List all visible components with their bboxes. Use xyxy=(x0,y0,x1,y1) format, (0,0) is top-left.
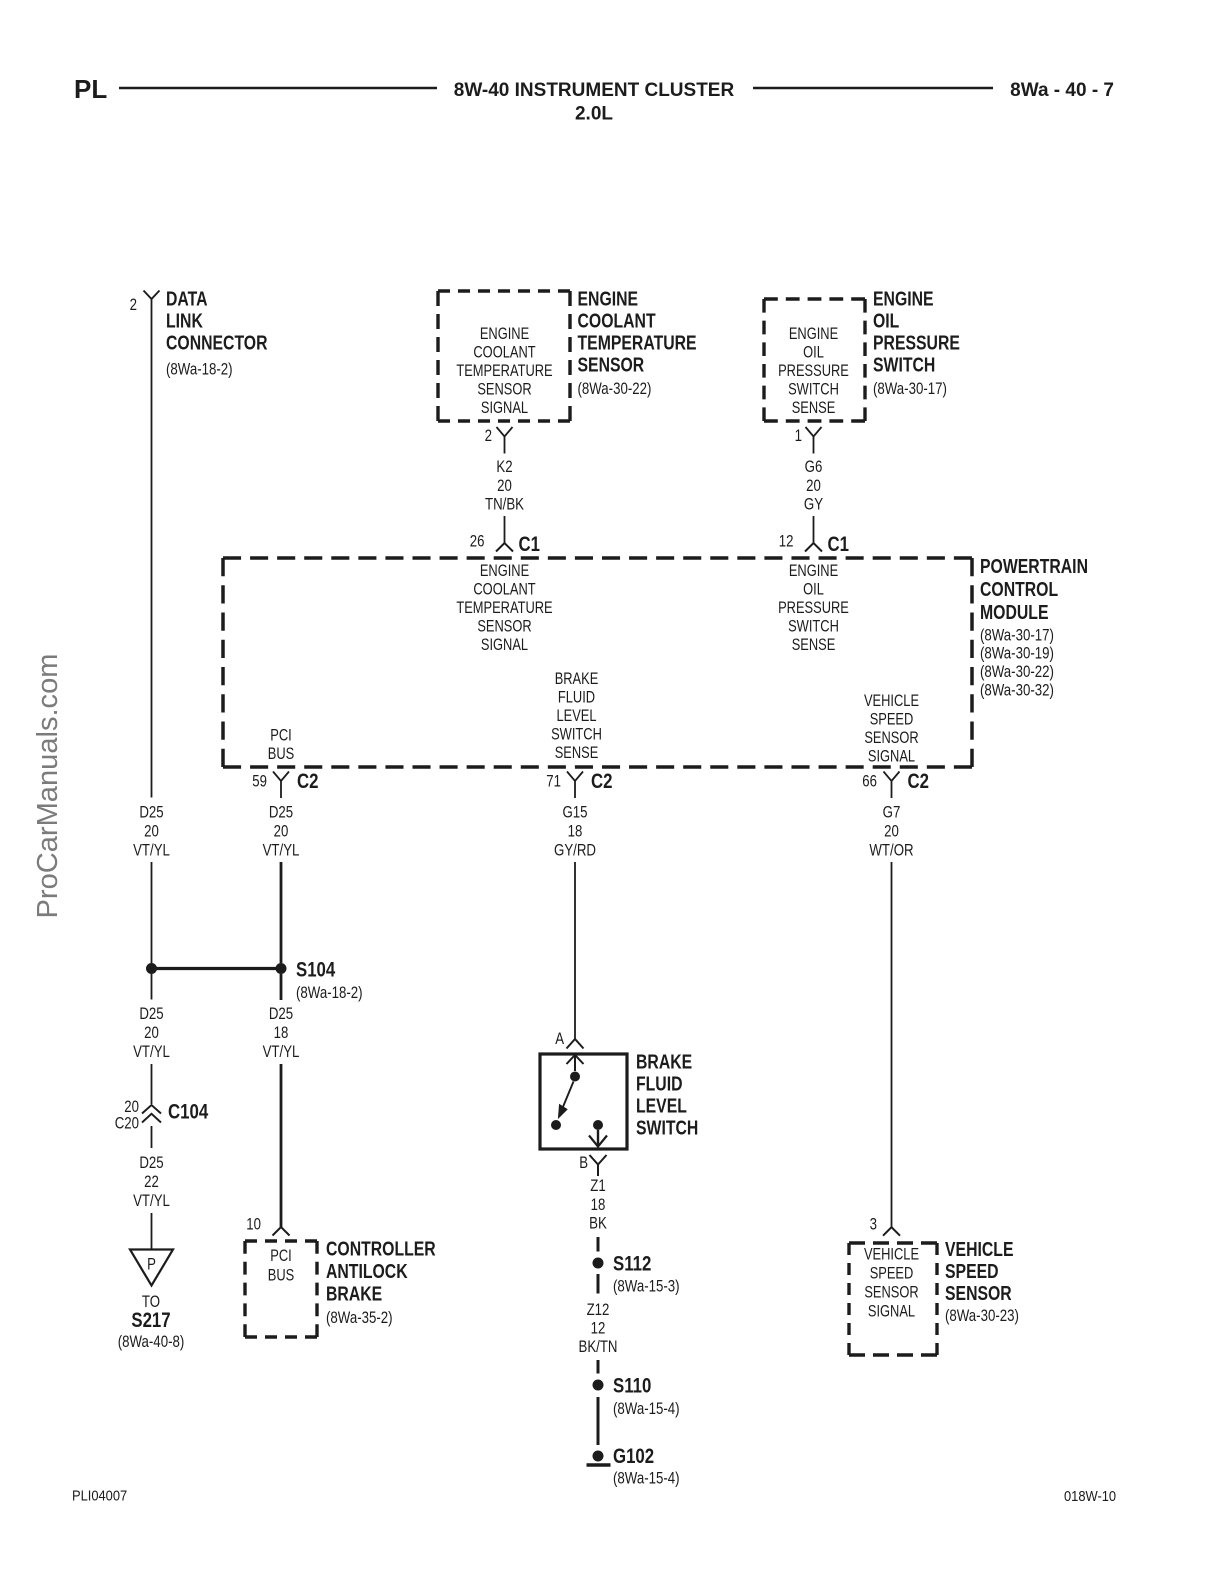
svg-text:SIGNAL: SIGNAL xyxy=(868,748,915,766)
vehicle speed sensor box xyxy=(849,1243,937,1355)
svg-text:(8Wa-18-2): (8Wa-18-2) xyxy=(166,360,233,379)
svg-text:BUS: BUS xyxy=(268,1267,295,1285)
connector C2 pin 59 xyxy=(252,770,318,798)
svg-text:VT/YL: VT/YL xyxy=(263,841,300,860)
connector C104 label xyxy=(168,1101,208,1124)
header code PL xyxy=(74,74,107,104)
svg-text:SWITCH: SWITCH xyxy=(636,1118,698,1140)
svg-text:VT/YL: VT/YL xyxy=(133,841,170,860)
svg-text:D25: D25 xyxy=(269,803,293,822)
connector C1 pin 12 xyxy=(779,532,849,557)
svg-text:(8Wa-30-19): (8Wa-30-19) xyxy=(980,644,1054,663)
svg-text:2.0L: 2.0L xyxy=(575,104,613,125)
switch pin B arrow to box edge xyxy=(589,1130,607,1147)
svg-text:GY/RD: GY/RD xyxy=(554,841,596,860)
wire label G6 20 GY xyxy=(804,457,823,514)
svg-text:SWITCH: SWITCH xyxy=(551,726,602,744)
svg-text:C2: C2 xyxy=(297,770,319,793)
svg-text:CONNECTOR: CONNECTOR xyxy=(166,333,268,355)
svg-text:SWITCH: SWITCH xyxy=(788,618,839,636)
svg-text:SIGNAL: SIGNAL xyxy=(481,636,528,654)
svg-text:SPEED: SPEED xyxy=(870,711,914,729)
connector half, DLC pin 2 xyxy=(144,291,160,300)
svg-text:G6: G6 xyxy=(805,457,823,476)
connector half, sensor pin 2 xyxy=(485,426,513,454)
svg-text:LEVEL: LEVEL xyxy=(556,707,596,725)
svg-text:ANTILOCK: ANTILOCK xyxy=(326,1261,408,1283)
svg-text:20: 20 xyxy=(274,822,289,841)
svg-text:59: 59 xyxy=(252,772,267,791)
svg-text:VT/YL: VT/YL xyxy=(133,1042,170,1061)
svg-text:OIL: OIL xyxy=(803,581,824,599)
svg-text:PRESSURE: PRESSURE xyxy=(778,362,849,380)
ground G102 dot xyxy=(593,1451,604,1462)
engine oil pressure switch box xyxy=(764,299,865,421)
svg-text:C20: C20 xyxy=(115,1114,139,1133)
svg-text:8Wa - 40 - 7: 8Wa - 40 - 7 xyxy=(1010,80,1114,101)
svg-text:WT/OR: WT/OR xyxy=(869,841,913,860)
svg-text:(8Wa-30-23): (8Wa-30-23) xyxy=(945,1306,1019,1325)
svg-text:SENSE: SENSE xyxy=(792,399,836,417)
svg-text:G7: G7 xyxy=(883,803,901,822)
svg-text:D25: D25 xyxy=(139,803,163,822)
connector C104 double chevron xyxy=(142,1105,161,1123)
engine coolant temperature sensor box xyxy=(438,291,570,421)
PCM pin text engine oil pressure switch sense xyxy=(778,562,849,654)
PCM pin text PCI BUS xyxy=(268,727,295,764)
svg-text:ENGINE: ENGINE xyxy=(873,289,934,311)
splice S104 label xyxy=(296,959,363,1003)
svg-text:A: A xyxy=(555,1029,564,1048)
svg-text:TEMPERATURE: TEMPERATURE xyxy=(456,599,552,617)
svg-text:20: 20 xyxy=(497,476,512,495)
label POWERTRAIN CONTROL MODULE xyxy=(980,556,1088,700)
svg-text:(8Wa-15-3): (8Wa-15-3) xyxy=(613,1277,680,1296)
svg-text:GY: GY xyxy=(804,495,823,514)
svg-text:BRAKE: BRAKE xyxy=(555,670,599,688)
svg-text:C2: C2 xyxy=(591,770,613,793)
svg-text:FLUID: FLUID xyxy=(558,689,595,707)
svg-text:PRESSURE: PRESSURE xyxy=(873,333,960,355)
wire xyxy=(151,974,153,1000)
svg-text:(8Wa-30-32): (8Wa-30-32) xyxy=(980,681,1054,700)
svg-text:(8Wa-35-2): (8Wa-35-2) xyxy=(326,1308,393,1327)
svg-text:PCI: PCI xyxy=(270,727,292,745)
svg-text:ENGINE: ENGINE xyxy=(789,562,838,580)
wire D25 from DLC xyxy=(151,299,153,798)
svg-text:3: 3 xyxy=(870,1214,877,1233)
svg-text:LINK: LINK xyxy=(166,311,203,333)
svg-text:SIGNAL: SIGNAL xyxy=(481,399,528,417)
wire xyxy=(597,1360,600,1374)
label DATA LINK CONNECTOR xyxy=(166,289,268,379)
connector C104 pin labels xyxy=(115,1097,139,1133)
svg-text:C2: C2 xyxy=(908,770,930,793)
wire label Z1 18 BK xyxy=(589,1176,607,1233)
wire xyxy=(891,862,893,1227)
svg-text:ENGINE: ENGINE xyxy=(480,562,529,580)
svg-text:TEMPERATURE: TEMPERATURE xyxy=(456,362,552,380)
pin number 3 xyxy=(870,1214,877,1233)
svg-text:CONTROL: CONTROL xyxy=(980,579,1058,601)
box text ENGINE OIL PRESSURE SWITCH SENSE xyxy=(778,325,849,417)
label BRAKE FLUID LEVEL SWITCH xyxy=(636,1052,698,1140)
svg-text:Z1: Z1 xyxy=(590,1176,606,1195)
wire label Z12 12 BK/TN xyxy=(579,1300,618,1356)
svg-text:12: 12 xyxy=(591,1319,606,1338)
svg-text:OIL: OIL xyxy=(873,311,899,333)
svg-text:SENSOR: SENSOR xyxy=(864,729,918,747)
svg-text:S110: S110 xyxy=(613,1375,651,1398)
svg-text:K2: K2 xyxy=(496,457,512,476)
wire xyxy=(597,1237,600,1252)
svg-text:COOLANT: COOLANT xyxy=(473,581,535,599)
label TO S217 xyxy=(118,1292,185,1351)
svg-text:(8Wa-30-17): (8Wa-30-17) xyxy=(873,379,947,398)
svg-text:PL: PL xyxy=(74,74,107,104)
svg-text:DATA: DATA xyxy=(166,289,208,311)
svg-text:C104: C104 xyxy=(168,1101,208,1124)
svg-text:12: 12 xyxy=(779,532,794,551)
svg-text:Z12: Z12 xyxy=(587,1300,610,1319)
svg-text:22: 22 xyxy=(144,1172,159,1191)
svg-text:VT/YL: VT/YL xyxy=(133,1191,170,1210)
wire label D25 18 VT/YL xyxy=(263,1004,300,1061)
wire S104 cross link xyxy=(152,967,282,970)
svg-text:(8Wa-30-22): (8Wa-30-22) xyxy=(980,662,1054,681)
wire label K2 20 TN/BK xyxy=(485,457,525,514)
wire xyxy=(151,1064,153,1104)
svg-text:MODULE: MODULE xyxy=(980,602,1049,624)
svg-text:018W-10: 018W-10 xyxy=(1064,1488,1116,1505)
ground G102 bar xyxy=(587,1463,611,1466)
PCM pin text brake fluid level switch sense xyxy=(551,670,602,762)
wire xyxy=(151,1213,153,1249)
wire label D25 20 VT/YL (upper left) xyxy=(133,803,170,860)
connector C2 pin 66 xyxy=(862,770,929,798)
splice S110 dot xyxy=(593,1380,604,1391)
svg-text:TEMPERATURE: TEMPERATURE xyxy=(578,333,697,355)
svg-text:VEHICLE: VEHICLE xyxy=(864,1246,919,1264)
svg-text:2: 2 xyxy=(130,295,137,314)
label CONTROLLER ANTILOCK BRAKE xyxy=(326,1239,436,1328)
footer drawing number xyxy=(1064,1488,1116,1505)
svg-text:1: 1 xyxy=(795,426,802,445)
svg-text:SENSE: SENSE xyxy=(792,636,836,654)
svg-text:POWERTRAIN: POWERTRAIN xyxy=(980,556,1088,578)
svg-text:(8Wa-40-8): (8Wa-40-8) xyxy=(118,1332,185,1351)
svg-text:ENGINE: ENGINE xyxy=(789,325,838,343)
wire xyxy=(597,1397,600,1445)
svg-text:18: 18 xyxy=(274,1023,289,1042)
svg-text:G15: G15 xyxy=(562,803,587,822)
svg-text:20: 20 xyxy=(144,822,159,841)
connector half pin B xyxy=(579,1153,606,1176)
switch pin A male half xyxy=(567,1055,584,1071)
label VEHICLE SPEED SENSOR xyxy=(945,1239,1019,1325)
svg-text:CONTROLLER: CONTROLLER xyxy=(326,1239,436,1261)
wire label D25 22 VT/YL xyxy=(133,1153,170,1210)
svg-text:BK/TN: BK/TN xyxy=(579,1337,618,1356)
PCM pin text vehicle speed sensor signal xyxy=(864,692,919,766)
svg-text:SPEED: SPEED xyxy=(945,1261,999,1283)
wire label G7 20 WT/OR xyxy=(869,803,913,860)
wire xyxy=(151,1126,153,1148)
svg-text:D25: D25 xyxy=(139,1004,163,1023)
splice S110 label xyxy=(613,1375,680,1419)
svg-text:S217: S217 xyxy=(131,1309,170,1332)
svg-text:20: 20 xyxy=(144,1023,159,1042)
svg-text:ProCarManuals.com: ProCarManuals.com xyxy=(32,654,64,919)
box text PCI BUS xyxy=(268,1247,295,1285)
connector half pin A xyxy=(555,1029,583,1049)
pin number 10 xyxy=(246,1215,261,1234)
svg-text:20: 20 xyxy=(884,822,899,841)
switch lower contact dot xyxy=(551,1120,561,1130)
wire PCI bus xyxy=(280,862,283,963)
svg-text:(8Wa-18-2): (8Wa-18-2) xyxy=(296,983,363,1002)
svg-text:(8Wa-30-22): (8Wa-30-22) xyxy=(578,379,652,398)
pin number 2 xyxy=(130,295,137,314)
svg-text:S104: S104 xyxy=(296,959,335,982)
wire xyxy=(151,862,153,964)
svg-text:OIL: OIL xyxy=(803,344,824,362)
wire xyxy=(574,862,576,1039)
svg-text:18: 18 xyxy=(591,1195,606,1214)
header page number xyxy=(1010,80,1114,101)
svg-text:SPEED: SPEED xyxy=(870,1265,914,1283)
svg-text:26: 26 xyxy=(470,532,485,551)
svg-text:BK: BK xyxy=(589,1214,607,1233)
brake fluid level switch box xyxy=(540,1054,627,1149)
svg-text:S112: S112 xyxy=(613,1253,651,1276)
wire xyxy=(813,516,815,543)
off-page symbol P (to S217) xyxy=(130,1250,173,1286)
svg-text:SENSOR: SENSOR xyxy=(477,618,531,636)
splice S112 label xyxy=(613,1253,680,1296)
svg-text:8W-40 INSTRUMENT CLUSTER: 8W-40 INSTRUMENT CLUSTER xyxy=(454,80,735,101)
label ENGINE COOLANT TEMPERATURE SENSOR xyxy=(578,289,697,399)
box text VEHICLE SPEED SENSOR SIGNAL xyxy=(864,1246,919,1321)
label ENGINE OIL PRESSURE SWITCH xyxy=(873,289,960,399)
ground G102 label xyxy=(613,1445,680,1488)
svg-text:D25: D25 xyxy=(269,1004,293,1023)
svg-text:66: 66 xyxy=(862,772,877,791)
box text ENGINE COOLANT TEMPERATURE SENSOR SIGNAL xyxy=(456,325,552,417)
svg-text:P: P xyxy=(147,1255,156,1274)
connector half male to ABS xyxy=(273,1227,290,1236)
svg-text:C1: C1 xyxy=(519,533,541,556)
svg-text:ENGINE: ENGINE xyxy=(480,325,529,343)
svg-text:2: 2 xyxy=(485,426,492,445)
svg-text:PRESSURE: PRESSURE xyxy=(778,599,849,617)
PCM pin text engine coolant temperature sensor signal xyxy=(456,562,552,654)
svg-text:SENSOR: SENSOR xyxy=(945,1283,1012,1305)
svg-text:10: 10 xyxy=(246,1215,261,1234)
controller antilock brake box xyxy=(245,1241,317,1337)
watermark ProCarManuals.com xyxy=(32,654,64,919)
svg-text:(8Wa-15-4): (8Wa-15-4) xyxy=(613,1469,680,1488)
svg-text:B: B xyxy=(579,1153,588,1172)
svg-text:COOLANT: COOLANT xyxy=(578,311,656,333)
svg-text:VEHICLE: VEHICLE xyxy=(945,1239,1014,1261)
connector half, switch pin 1 xyxy=(795,426,822,454)
svg-text:(8Wa-15-4): (8Wa-15-4) xyxy=(613,1399,680,1418)
svg-text:ENGINE: ENGINE xyxy=(578,289,639,311)
svg-text:SENSOR: SENSOR xyxy=(477,381,531,399)
connector C2 pin 71 xyxy=(546,770,612,798)
switch pin B contact dot xyxy=(593,1120,603,1130)
svg-text:SENSOR: SENSOR xyxy=(864,1284,918,1302)
svg-text:VEHICLE: VEHICLE xyxy=(864,692,919,710)
splice S104 left junction dot xyxy=(146,963,157,974)
svg-text:D25: D25 xyxy=(139,1153,163,1172)
svg-text:20: 20 xyxy=(806,476,821,495)
svg-text:(8Wa-30-17): (8Wa-30-17) xyxy=(980,626,1054,645)
wire PCI bus lower xyxy=(280,1064,283,1227)
header title xyxy=(454,80,735,125)
svg-text:71: 71 xyxy=(546,772,561,791)
powertrain control module box xyxy=(223,558,972,767)
svg-text:SWITCH: SWITCH xyxy=(788,381,839,399)
wire label D25 20 VT/YL (PCI upper) xyxy=(263,803,300,860)
svg-text:TN/BK: TN/BK xyxy=(485,495,525,514)
svg-text:PCI: PCI xyxy=(270,1247,292,1265)
wire label D25 20 VT/YL (lower left) xyxy=(133,1004,170,1061)
wire xyxy=(280,974,283,1000)
svg-text:C1: C1 xyxy=(828,533,850,556)
header rule right xyxy=(753,87,993,90)
footer sheet code xyxy=(72,1488,127,1505)
connector half male to VSS xyxy=(883,1227,900,1236)
svg-text:SWITCH: SWITCH xyxy=(873,355,935,377)
svg-text:SENSOR: SENSOR xyxy=(578,355,645,377)
svg-text:BRAKE: BRAKE xyxy=(636,1052,692,1074)
svg-text:FLUID: FLUID xyxy=(636,1074,683,1096)
wire xyxy=(504,516,506,543)
svg-text:BRAKE: BRAKE xyxy=(326,1284,382,1306)
svg-text:COOLANT: COOLANT xyxy=(473,344,535,362)
connector C1 pin 26 xyxy=(470,532,540,557)
svg-text:BUS: BUS xyxy=(268,745,295,763)
svg-text:18: 18 xyxy=(568,822,583,841)
svg-text:SIGNAL: SIGNAL xyxy=(868,1303,915,1321)
splice S112 dot xyxy=(593,1258,604,1269)
switch common contact dot xyxy=(570,1072,580,1082)
splice S104 junction dot xyxy=(276,963,287,974)
svg-text:PLI04007: PLI04007 xyxy=(72,1488,127,1505)
svg-text:G102: G102 xyxy=(613,1445,654,1468)
svg-text:SENSE: SENSE xyxy=(555,744,599,762)
header rule left xyxy=(119,87,437,90)
svg-text:VT/YL: VT/YL xyxy=(263,1042,300,1061)
wire label G15 18 GY/RD xyxy=(554,803,596,860)
wire xyxy=(597,1274,600,1294)
svg-text:LEVEL: LEVEL xyxy=(636,1096,687,1118)
switch arm with arrowhead xyxy=(559,1082,574,1118)
